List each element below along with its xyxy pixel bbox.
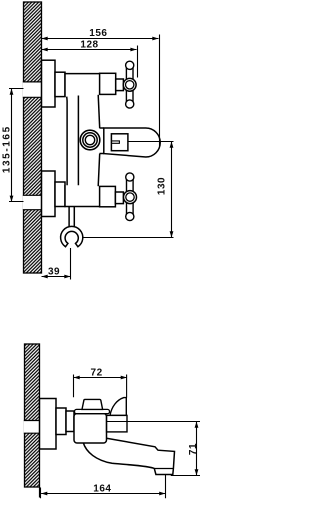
supply pipe through wall (side) (24, 421, 40, 434)
body column (67, 95, 79, 186)
upper cross handle U1 (123, 61, 136, 108)
shower hook stem (69, 207, 74, 228)
svg-text:135-165: 135-165 (2, 125, 13, 173)
cold supply pipe through wall (23, 195, 42, 209)
svg-text:71: 71 (188, 443, 199, 455)
dim 135-165 (2, 89, 14, 202)
dim 130 bottom reference line (82, 237, 174, 239)
svg-text:156: 156 (89, 28, 107, 39)
upper body tee (65, 74, 100, 97)
upper wall flange (42, 60, 56, 107)
svg-text:128: 128 (80, 40, 98, 51)
handle knob (side) (82, 399, 103, 409)
lower body tee (65, 185, 100, 207)
dim 130 (157, 142, 174, 238)
upper handle neck (116, 79, 124, 91)
diverter block (side) (107, 415, 127, 432)
lower wall flange (42, 171, 56, 217)
handle base plate (side) (75, 409, 110, 413)
dim 156 (42, 28, 160, 146)
svg-text:39: 39 (48, 267, 60, 278)
dim 71 (107, 422, 200, 476)
diverter knob on spout (111, 134, 128, 151)
dim 128 (42, 40, 138, 78)
upper handle collar (100, 73, 116, 94)
valve body (side) (74, 414, 107, 444)
shower hook C (61, 226, 83, 246)
upper spout pedestal edge (98, 95, 100, 128)
svg-text:130: 130 (157, 177, 168, 195)
spout (plan) (100, 128, 161, 157)
lower valve bonnet (55, 182, 65, 207)
dim 72 (74, 368, 127, 398)
lower handle neck (115, 192, 123, 204)
dim 135-165 extension lines (9, 89, 24, 202)
svg-text:164: 164 (93, 484, 111, 495)
flange (side) (40, 399, 57, 450)
lower handle collar (100, 186, 116, 206)
dim 39 (42, 248, 71, 280)
handle horn arm (side) (110, 398, 126, 416)
dim 130 top reference line through spout (128, 141, 174, 143)
hot supply pipe through wall (23, 82, 42, 97)
lower spout pedestal edge (98, 154, 100, 187)
connector step (side) (66, 411, 74, 432)
svg-text:72: 72 (91, 368, 103, 379)
spout (side) (83, 438, 174, 475)
lower cross handle U2 (124, 173, 137, 221)
wall (24, 2, 42, 273)
bonnet (side) (56, 408, 66, 435)
upper valve bonnet (55, 72, 65, 96)
union ring on column (80, 130, 100, 150)
wall (side view) (25, 344, 40, 487)
dim 164 (41, 475, 166, 498)
wall face line extension (39, 487, 41, 498)
